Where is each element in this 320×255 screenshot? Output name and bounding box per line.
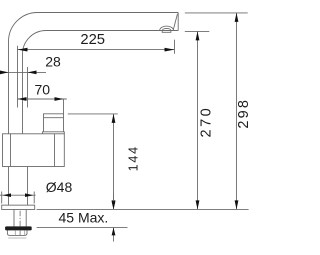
dim line 45max bottom [113, 227, 115, 241]
body inner line right [54, 134, 56, 167]
svg-text:Ø48: Ø48 [46, 179, 73, 195]
ext line handle right [63, 99, 65, 114]
arrow 270 top [196, 31, 200, 40]
arrow 45max down [112, 201, 116, 209]
dim line 270 [197, 31, 199, 209]
base column left [8, 167, 10, 206]
arrow 225 left [18, 48, 28, 52]
body inner line left [10, 134, 12, 167]
shank right [25, 210, 27, 227]
arrow 28 left [0, 71, 9, 75]
arrow 45max up [112, 227, 116, 235]
centerline [19, 211, 21, 235]
dim line 298 [236, 13, 238, 210]
dim line 28 [0, 71, 46, 73]
handle inner line [44, 117, 64, 119]
svg-text:70: 70 [35, 81, 51, 97]
spout end cap [177, 13, 179, 31]
dim line d48 [0, 194, 36, 196]
svg-text:144: 144 [126, 145, 140, 171]
svg-text:298: 298 [236, 98, 250, 129]
arrow 70 left [18, 97, 27, 101]
tailpiece shadow [8, 237, 26, 239]
ext line centerline riser [17, 46, 19, 108]
arrow d48 left [3, 193, 11, 197]
arrow 144 bottom [112, 200, 116, 209]
spout end diagonal [173, 14, 177, 30]
dim line 225 [18, 49, 175, 51]
arrow 28 right [28, 71, 37, 75]
body [3, 134, 65, 167]
arrow 298 bottom [235, 200, 239, 209]
arrow d48 right [25, 193, 33, 197]
thread stub left [14, 231, 16, 236]
tailpiece collar [7, 230, 27, 235]
dim line 70 [18, 98, 67, 100]
ext line handle top [68, 113, 118, 115]
ext line spout underside [185, 30, 210, 32]
arrow 298 top [235, 13, 239, 22]
dim line 45max top [113, 194, 115, 209]
handle box [44, 114, 64, 132]
thread stub right [24, 231, 26, 236]
nut [5, 226, 32, 230]
arrow 70 right [55, 97, 64, 101]
svg-text:270: 270 [198, 106, 214, 138]
ext line spout end [174, 40, 176, 54]
counter bottom line (45 max) [37, 226, 128, 228]
arrow 144 top [112, 114, 116, 123]
ext tick left [1, 192, 3, 204]
arrow 225 right [165, 48, 175, 52]
arrow 270 bottom [196, 200, 200, 209]
aerator inner dome [162, 28, 171, 30]
aerator ring below [162, 31, 171, 33]
handle collar [43, 132, 65, 134]
ext line spout top [185, 12, 248, 14]
dim line 144 [113, 114, 115, 209]
base column right [27, 167, 29, 206]
flange [2, 205, 35, 209]
shank left [13, 210, 15, 227]
countertop line [37, 208, 249, 210]
svg-text:225: 225 [80, 32, 105, 48]
aerator outer dome [160, 26, 174, 30]
svg-text:28: 28 [45, 53, 61, 69]
ext line 28 right [27, 67, 29, 108]
spout inner profile [23, 31, 179, 134]
svg-text:45 Max.: 45 Max. [58, 209, 108, 225]
ext tick right [33, 192, 35, 204]
spout outer profile [9, 13, 179, 134]
